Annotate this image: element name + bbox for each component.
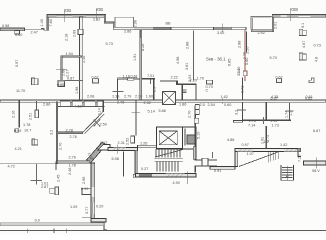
svg-text:2.96: 2.96 <box>82 177 86 184</box>
svg-text:0.62: 0.62 <box>92 76 99 80</box>
svg-text:0.91: 0.91 <box>214 169 221 173</box>
svg-text:2.9: 2.9 <box>152 87 156 92</box>
svg-text:1.86: 1.86 <box>179 103 186 107</box>
balcony box top-right <box>251 16 272 29</box>
svg-text:7.01: 7.01 <box>147 74 154 78</box>
thin line y80.4 <box>65 79 83 81</box>
wall vertical x273 <box>272 15 274 32</box>
svg-text:3.2: 3.2 <box>50 130 54 135</box>
svg-text:4.8: 4.8 <box>315 57 319 62</box>
svg-text:2.76: 2.76 <box>69 156 76 160</box>
svg-text:98.V: 98.V <box>312 169 320 173</box>
wall horiz y56.5 <box>61 56 82 57</box>
svg-text:2.78: 2.78 <box>66 128 73 132</box>
flight central stringer <box>286 166 288 180</box>
svg-text:1.60: 1.60 <box>146 95 153 99</box>
vestibule left wall <box>122 151 124 176</box>
svg-text:2.52: 2.52 <box>144 101 151 105</box>
svg-text:0.58: 0.58 <box>2 24 9 28</box>
wall C solid part <box>154 27 172 30</box>
svg-text:5.86: 5.86 <box>159 109 166 113</box>
machine room wall x185 <box>184 128 186 145</box>
passage dim tick <box>212 152 214 158</box>
exit passage lines <box>194 159 217 161</box>
balcony box top <box>115 17 133 29</box>
svg-text:4.98: 4.98 <box>176 57 180 64</box>
wall stub y121 <box>234 120 243 122</box>
svg-text:0.97: 0.97 <box>15 60 19 67</box>
dim tick x290 <box>289 11 291 21</box>
wall D double line <box>171 27 246 30</box>
stair lower flight <box>157 161 178 171</box>
neck dim tick <box>116 145 118 154</box>
svg-text:2.86: 2.86 <box>124 30 131 34</box>
vestibule bottom wall <box>133 174 151 177</box>
svg-text:3.2: 3.2 <box>235 110 239 115</box>
dim cross ticks <box>56 68 67 70</box>
svg-text:1.09: 1.09 <box>70 205 77 209</box>
wall vertical x140.8 <box>140 30 142 101</box>
svg-text:1.26: 1.26 <box>140 142 147 146</box>
entrance dark end <box>298 148 301 151</box>
dark block on bottom band <box>139 174 152 177</box>
svg-text:4.21: 4.21 <box>15 147 22 151</box>
shaft box 0.66 <box>58 81 65 87</box>
elevator shaft 1 redraw <box>162 91 175 104</box>
wc right wall <box>195 84 197 102</box>
entrance wall x236.3 <box>235 148 238 166</box>
svg-text:2.5: 2.5 <box>200 103 205 107</box>
svg-text:4.90: 4.90 <box>173 181 180 185</box>
svg-text:2.76: 2.76 <box>117 101 124 105</box>
porch box 0.60 <box>50 188 55 193</box>
radiator box porch <box>55 187 59 195</box>
svg-text:5.14: 5.14 <box>148 110 155 114</box>
box 0.59 <box>15 129 19 132</box>
right apartment wall x266 <box>265 103 267 121</box>
stair cut line <box>155 150 183 158</box>
dim tick x96.7 <box>96 9 98 21</box>
machine room <box>183 127 196 149</box>
left lower wall thin y163.8 <box>0 163 57 165</box>
outdoor treads vertical <box>268 152 278 163</box>
storage top wall <box>117 78 140 80</box>
entrance window hatch 2 <box>284 149 298 152</box>
svg-text:0.73: 0.73 <box>314 44 321 48</box>
entrance return x299.5 <box>298 152 301 157</box>
wc left wall <box>181 84 183 102</box>
svg-text:2.50: 2.50 <box>100 122 107 126</box>
entrance top wall band <box>235 148 301 151</box>
svg-text:1.78: 1.78 <box>249 119 256 123</box>
svg-text:0.62: 0.62 <box>305 97 312 101</box>
svg-text:2.20: 2.20 <box>190 79 197 83</box>
svg-text:1.07: 1.07 <box>247 152 254 156</box>
bottom dimension line <box>0 230 326 232</box>
shaft top band <box>58 80 65 81</box>
svg-text:1.98: 1.98 <box>75 87 79 94</box>
wall vertical x242.5 <box>242 78 244 121</box>
vent boxes core <box>195 105 199 110</box>
diag thin inner wall <box>83 112 103 132</box>
svg-text:2.70: 2.70 <box>188 111 192 118</box>
bottom wall tick <box>186 172 188 185</box>
right vline x289.5 <box>289 103 291 120</box>
svg-text:5.73: 5.73 <box>106 42 113 46</box>
window sill line <box>25 29 45 31</box>
dim ticks bottom <box>27 228 29 233</box>
wall x266 lower segment <box>265 126 267 148</box>
stub line y217.8 <box>82 217 91 219</box>
svg-text:3.02: 3.02 <box>217 31 224 35</box>
svg-text:ЮВ: ЮВ <box>64 8 71 13</box>
svg-text:0.61: 0.61 <box>131 75 138 79</box>
ramp diagonal <box>239 152 279 167</box>
wall vertical x56.9 <box>56 102 58 164</box>
svg-text:2.76: 2.76 <box>70 135 77 139</box>
wall vertical x81 left room <box>80 17 83 101</box>
svg-text:6.98: 6.98 <box>112 157 119 161</box>
svg-text:2.69: 2.69 <box>73 30 77 37</box>
bottom-left step <box>104 222 107 230</box>
entrance wall y167.7 <box>210 166 235 169</box>
svg-text:8.26: 8.26 <box>141 44 145 51</box>
bottom-left wall band <box>91 219 106 222</box>
svg-text:1.91: 1.91 <box>133 54 137 61</box>
wall vertical x117.3 <box>117 79 119 100</box>
left lower wall band y162.7 <box>57 161 90 164</box>
svg-text:2.52: 2.52 <box>126 138 130 145</box>
svg-text:0.60: 0.60 <box>224 103 231 107</box>
window C1 fill <box>134 28 154 30</box>
vestibule right wall <box>135 150 137 176</box>
svg-text:6.85: 6.85 <box>228 59 232 66</box>
svg-text:3.14: 3.14 <box>98 108 102 115</box>
box 0.70 <box>207 80 213 84</box>
dim tick x222 <box>221 23 223 32</box>
svg-text:1.2: 1.2 <box>264 140 269 144</box>
stair upper flight <box>156 149 180 158</box>
right apartment inner wall y121 <box>242 119 291 121</box>
svg-text:0.87: 0.87 <box>67 76 74 80</box>
porch vline x36.4 <box>35 164 37 184</box>
wall vertical x103.4 <box>102 101 104 112</box>
red line 2 <box>244 30 246 81</box>
svg-text:11.70: 11.70 <box>16 89 25 93</box>
corridor neck wall band <box>108 147 137 150</box>
wall vertical x104.5 <box>104 15 106 23</box>
red line cap box <box>243 71 247 76</box>
west window1 box <box>82 188 91 194</box>
step jog <box>41 28 48 30</box>
stair bottom window hatch <box>166 174 185 177</box>
dim vline x266.7 <box>266 140 268 148</box>
svg-text:0.62: 0.62 <box>100 141 107 145</box>
svg-text:2.20: 2.20 <box>246 47 250 54</box>
svg-text:2.87: 2.87 <box>41 185 48 189</box>
bath top wall y78.8 <box>142 78 155 80</box>
wall horiz y132.8 <box>56 132 82 134</box>
porch slab band <box>0 223 104 226</box>
bath right wall x153.8 <box>153 79 155 100</box>
svg-text:0.59: 0.59 <box>14 129 21 133</box>
svg-text:1.16: 1.16 <box>123 75 130 79</box>
vestibule bottom hatch <box>137 175 148 177</box>
svg-text:2.22: 2.22 <box>171 76 178 80</box>
svg-text:0.60: 0.60 <box>15 33 22 37</box>
svg-text:9.9: 9.9 <box>35 218 40 222</box>
svg-text:2.31: 2.31 <box>118 141 125 145</box>
svg-text:1.62: 1.62 <box>221 95 228 99</box>
window B2 <box>86 15 104 17</box>
wall jog x177 <box>176 80 178 84</box>
svg-text:4.50: 4.50 <box>75 105 82 109</box>
svg-text:4.67: 4.67 <box>302 41 306 48</box>
corridor long wall y100 <box>0 100 326 102</box>
dim tick x64.6 <box>64 11 66 22</box>
left wall stub x56 <box>55 162 57 171</box>
top wall band B <box>47 15 106 18</box>
svg-text:0.60: 0.60 <box>245 58 249 65</box>
window E1 <box>281 15 288 17</box>
svg-text:ЮВ!: ЮВ! <box>290 7 298 12</box>
door tick <box>131 112 140 114</box>
west wall window2 <box>91 203 94 214</box>
svg-text:2.20: 2.20 <box>135 94 142 98</box>
svg-text:5.10: 5.10 <box>197 132 201 139</box>
svg-text:7.14: 7.14 <box>248 124 255 128</box>
svg-text:4.72: 4.72 <box>8 165 15 169</box>
svg-text:0.72: 0.72 <box>241 86 245 93</box>
toilet L icon <box>309 78 314 83</box>
window E2 <box>299 15 311 17</box>
svg-text:2.70: 2.70 <box>59 143 63 150</box>
dim line y91.5 <box>113 91 124 93</box>
stair landing lines <box>155 158 184 160</box>
core elevator big outer <box>157 127 183 149</box>
svg-text:С: С <box>206 89 209 93</box>
west hatched wall vertical <box>91 163 95 219</box>
elevator X box <box>159 131 177 145</box>
svg-text:2.88: 2.88 <box>238 41 242 48</box>
wall vertical x114 <box>113 22 115 29</box>
door bars <box>183 89 187 90</box>
svg-text:0.97: 0.97 <box>242 143 249 147</box>
wall horiz y22 <box>104 22 115 24</box>
elevator shaft 1 <box>162 91 175 104</box>
svg-text:0.66: 0.66 <box>57 83 64 87</box>
svg-text:2.51: 2.51 <box>29 113 33 120</box>
radiator box <box>35 110 38 118</box>
vent box left <box>32 139 35 145</box>
svg-text:1.42: 1.42 <box>280 143 287 147</box>
svg-text:0.20: 0.20 <box>96 205 103 209</box>
right tick <box>286 110 294 112</box>
svg-text:0.99: 0.99 <box>81 187 88 191</box>
west wall window1 <box>91 187 94 197</box>
svg-text:10.7: 10.7 <box>24 129 31 133</box>
svg-text:1.73: 1.73 <box>272 124 279 128</box>
svg-text:9.1: 9.1 <box>301 23 305 28</box>
wc top wall y84.2 <box>176 83 197 85</box>
svg-text:2.47: 2.47 <box>31 30 38 34</box>
svg-text:2.45: 2.45 <box>57 175 61 182</box>
dim tick y110 <box>237 109 246 111</box>
svg-text:3.77: 3.77 <box>85 207 89 214</box>
svg-text:2.46: 2.46 <box>68 168 72 175</box>
washbasin right <box>277 79 282 83</box>
wall vertical x47 <box>47 15 49 31</box>
storage door box <box>127 78 133 80</box>
partition x136 <box>135 101 137 136</box>
svg-text:2.88: 2.88 <box>186 42 190 49</box>
top wall E right <box>272 15 326 18</box>
svg-text:Sкв - 36.1: Sкв - 36.1 <box>206 57 226 62</box>
elevator X brace <box>159 131 177 145</box>
svg-text:1.78: 1.78 <box>23 123 30 127</box>
svg-text:0.62: 0.62 <box>276 76 283 80</box>
svg-text:2.86: 2.86 <box>43 102 50 106</box>
svg-text:2.92: 2.92 <box>258 31 265 35</box>
svg-text:2.96: 2.96 <box>134 20 138 27</box>
red line 1 <box>192 31 194 81</box>
window sill box top-left <box>15 30 20 34</box>
radiator line x36.4 <box>35 101 37 116</box>
svg-text:2.54: 2.54 <box>208 103 215 107</box>
svg-text:1.94: 1.94 <box>66 52 73 56</box>
svg-text:1.74: 1.74 <box>285 111 289 118</box>
wall vertical x61.4 <box>61 56 62 80</box>
neck window hatch <box>114 148 126 150</box>
wall vertical x246.7 top <box>246 32 248 53</box>
washbasin left <box>93 79 99 83</box>
machine room inner dark box <box>187 135 195 144</box>
outdoor stair right flight <box>282 168 293 178</box>
vent boxes top right <box>299 29 302 35</box>
svg-text:6.67: 6.67 <box>313 129 320 133</box>
diagonal hatched wall <box>87 142 106 163</box>
vent box left mid <box>32 78 35 85</box>
svg-text:0.27: 0.27 <box>141 167 148 171</box>
shaft 1 X brace <box>162 91 175 104</box>
window D fill <box>213 28 231 30</box>
svg-text:1.4: 1.4 <box>289 111 293 116</box>
svg-text:3.61: 3.61 <box>185 63 189 70</box>
core right wall x195.3 <box>194 106 196 160</box>
closet row bottom band <box>57 106 105 108</box>
corridor top wall y81 <box>160 80 176 82</box>
door box at neck <box>131 136 135 143</box>
svg-text:2.18: 2.18 <box>65 34 69 41</box>
svg-text:1.40: 1.40 <box>40 19 44 26</box>
svg-text:3.16: 3.16 <box>237 69 241 76</box>
bath door tick <box>150 79 152 84</box>
box on wall x81 <box>78 29 83 34</box>
walkway band <box>304 161 326 165</box>
svg-text:2.08: 2.08 <box>87 94 94 98</box>
stairwell top wall <box>137 145 157 148</box>
exit door box <box>202 158 208 166</box>
svg-text:1.78: 1.78 <box>69 163 76 167</box>
svg-text:4.86: 4.86 <box>227 138 234 142</box>
wall top-left band <box>0 28 25 31</box>
window B1 <box>56 15 72 17</box>
thin line y77.9 <box>117 77 137 79</box>
dim vline x140.5 <box>140 30 142 38</box>
svg-text:7.80: 7.80 <box>49 19 53 26</box>
svg-text:2.16: 2.16 <box>12 111 16 118</box>
svg-text:7.20: 7.20 <box>298 155 302 162</box>
svg-text:2.46: 2.46 <box>82 56 86 63</box>
svg-text:ЮВ: ЮВ <box>96 7 103 12</box>
svg-text:2.01: 2.01 <box>274 22 278 29</box>
svg-text:2.11: 2.11 <box>271 119 278 123</box>
porch tick <box>31 180 42 182</box>
svg-text:1.33: 1.33 <box>112 94 119 98</box>
closet boxes <box>60 101 70 107</box>
stair bottom wall <box>136 173 197 177</box>
svg-text:1.79: 1.79 <box>197 76 204 80</box>
stair right wall <box>193 147 196 160</box>
wall vertical x19.2 <box>18 101 20 128</box>
landing box <box>98 145 110 150</box>
svg-text:ВВ: ВВ <box>166 22 172 26</box>
walkway tick <box>315 158 317 169</box>
main top wall C <box>113 27 171 30</box>
door X symbol <box>94 120 100 127</box>
svg-text:6.37: 6.37 <box>271 97 278 101</box>
right flight side walls <box>280 165 282 180</box>
svg-text:5.70: 5.70 <box>270 56 277 60</box>
svg-text:2.92: 2.92 <box>93 17 100 21</box>
entrance window hatch <box>238 149 253 152</box>
svg-text:2.79: 2.79 <box>124 95 131 99</box>
balcony bottom band <box>251 30 272 32</box>
